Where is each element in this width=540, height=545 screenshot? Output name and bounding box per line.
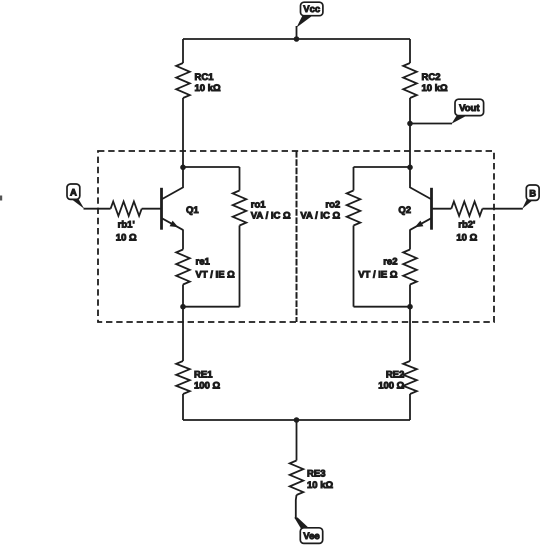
svg-text:10 Ω: 10 Ω: [116, 232, 137, 243]
resistor RC1: [176, 63, 190, 98]
svg-text:RE3: RE3: [307, 468, 325, 479]
resistor RE1: [176, 361, 190, 394]
input terminal A: [72, 199, 85, 209]
resistor re2: [403, 250, 417, 285]
resistor ro2: [353, 167, 355, 191]
resistor RC2: [403, 63, 417, 98]
svg-text:100 Ω: 100 Ω: [194, 380, 220, 391]
svg-text:Vout: Vout: [459, 103, 480, 114]
junction right emitter node: [407, 304, 413, 310]
svg-text:VT / IE Ω: VT / IE Ω: [196, 269, 236, 280]
svg-text:RC1: RC1: [195, 72, 215, 83]
dashed hybrid-pi model boundary: [98, 151, 494, 322]
svg-text:RE1: RE1: [194, 369, 213, 380]
svg-text:10 Ω: 10 Ω: [456, 232, 477, 243]
junction left emitter node: [180, 304, 186, 310]
wire ro1 to left emitter node: [183, 306, 240, 308]
wire Vout tap: [410, 123, 452, 125]
svg-text:VT / IE Ω: VT / IE Ω: [358, 269, 398, 280]
svg-text:Vee: Vee: [303, 531, 319, 542]
svg-text:10 kΩ: 10 kΩ: [422, 83, 448, 94]
svg-text:ro2: ro2: [325, 200, 340, 211]
svg-text:100 Ω: 100 Ω: [378, 380, 404, 391]
svg-text:B: B: [529, 188, 536, 199]
wire re2 to right emitter node: [409, 285, 411, 308]
svg-text:re2: re2: [383, 256, 397, 267]
resistor rb1': [111, 202, 142, 216]
transistor Q2: [430, 188, 433, 230]
svg-text:VA / IC Ω: VA / IC Ω: [300, 211, 340, 222]
svg-text:VA / IC Ω: VA / IC Ω: [251, 211, 291, 222]
wire ro2 to right emitter node: [354, 306, 411, 308]
wire left emitter node to RE1: [182, 307, 184, 361]
edge artifact: [0, 196, 2, 201]
junction tail node: [294, 417, 300, 423]
wire RE1 to bottom rail: [182, 394, 184, 420]
svg-text:A: A: [70, 187, 77, 198]
power terminal Vee: [294, 518, 309, 529]
svg-text:RC2: RC2: [422, 72, 441, 83]
svg-text:10 kΩ: 10 kΩ: [195, 83, 221, 94]
svg-text:Vcc: Vcc: [303, 4, 320, 15]
resistor ro1: [239, 167, 241, 191]
junction Q1 collector node: [180, 165, 186, 171]
wire Q2 collector node to ro2: [354, 166, 411, 168]
wire Vcc rail to RC2: [409, 39, 411, 63]
wire Q2 emitter to re2: [409, 230, 411, 250]
input terminal B: [522, 199, 534, 208]
svg-text:ro1: ro1: [251, 200, 266, 211]
wire tail node to RE3: [296, 420, 298, 461]
svg-text:re1: re1: [196, 256, 211, 267]
wire B to rb2': [482, 208, 522, 210]
svg-text:rb1': rb1': [118, 219, 135, 230]
resistor re1: [176, 250, 190, 285]
svg-text:rb2': rb2': [458, 219, 475, 230]
transistor Q1: [160, 188, 163, 230]
resistor rb2': [451, 202, 482, 216]
wire top supply rail: [183, 38, 410, 40]
wire RE3 to Vee: [295, 495, 298, 519]
svg-text:10 kΩ: 10 kΩ: [307, 480, 333, 491]
wire RE2 to bottom rail: [409, 394, 411, 420]
wire RC2 to Vout node: [409, 98, 411, 124]
junction Q2 collector node: [407, 165, 413, 171]
wire right emitter node to RE2: [409, 307, 411, 361]
wire re1 to left emitter node: [182, 285, 184, 308]
junction Vout node: [407, 121, 413, 127]
wire RC1 to Q1 collector node: [182, 98, 184, 168]
resistor RE2: [403, 361, 417, 394]
wire Q1 collector node to ro1: [183, 166, 240, 168]
wire A to rb1': [84, 208, 111, 210]
junction Vcc node: [294, 36, 300, 42]
wire rb1' to Q1 base: [142, 208, 161, 210]
svg-text:Q2: Q2: [398, 205, 411, 216]
wire rb2' to Q2 base: [433, 208, 452, 210]
power terminal Vcc: [296, 26, 298, 39]
wire Vcc rail to RC1: [182, 39, 184, 63]
svg-text:Q1: Q1: [186, 205, 199, 216]
dashed center divider: [296, 151, 298, 322]
svg-text:RE2: RE2: [386, 369, 404, 380]
wire Vout node to Q2 collector node: [409, 124, 411, 169]
resistor RE3: [290, 461, 304, 496]
wire Q1 emitter to re1: [182, 230, 184, 250]
terminal Vout: [452, 116, 467, 124]
wire bottom rail: [183, 419, 410, 421]
